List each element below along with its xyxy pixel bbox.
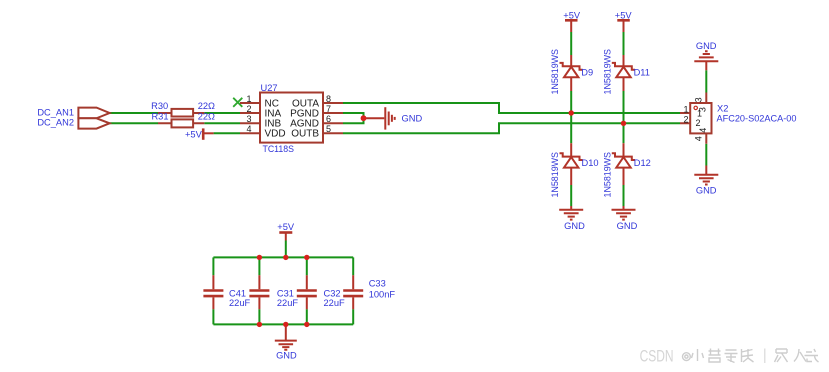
svg-text:4: 4 (246, 124, 251, 134)
svg-text:1N5819WS: 1N5819WS (550, 49, 560, 95)
svg-text:1: 1 (683, 105, 688, 115)
svg-text:C33: C33 (369, 279, 386, 289)
svg-text:OUTB: OUTB (291, 129, 319, 140)
svg-text:+5V: +5V (615, 10, 633, 20)
svg-text:1N5819WS: 1N5819WS (603, 49, 613, 95)
svg-text:GND: GND (564, 221, 585, 231)
svg-text:D12: D12 (634, 158, 651, 168)
svg-text:5: 5 (326, 124, 331, 134)
svg-text:3: 3 (246, 114, 251, 124)
svg-text:1N5819WS: 1N5819WS (603, 152, 613, 198)
svg-text:C31: C31 (277, 288, 294, 298)
svg-text:3: 3 (698, 107, 708, 112)
svg-text:2: 2 (696, 118, 701, 128)
svg-text:4: 4 (694, 136, 704, 141)
svg-text:22uF: 22uF (229, 298, 251, 308)
svg-text:D10: D10 (582, 158, 599, 168)
svg-text:100nF: 100nF (369, 290, 396, 300)
svg-text:+5V: +5V (185, 130, 203, 140)
svg-text:1: 1 (246, 94, 251, 104)
svg-text:D11: D11 (634, 68, 650, 78)
svg-text:X2: X2 (717, 104, 728, 114)
svg-text:DC_AN1: DC_AN1 (37, 107, 74, 117)
svg-text:U27: U27 (261, 83, 278, 93)
svg-text:D9: D9 (581, 68, 593, 78)
svg-text:GND: GND (402, 113, 423, 123)
svg-text:GND: GND (696, 41, 717, 51)
svg-text:VDD: VDD (265, 129, 286, 140)
svg-text:R30: R30 (151, 101, 168, 111)
svg-text:2: 2 (246, 104, 251, 114)
svg-text:4: 4 (698, 128, 708, 133)
svg-text:AFC20-S02ACA-00: AFC20-S02ACA-00 (717, 114, 797, 124)
svg-text:22uF: 22uF (324, 298, 346, 308)
svg-text:GND: GND (696, 186, 717, 196)
svg-text:C41: C41 (229, 288, 246, 298)
svg-text:6: 6 (326, 114, 331, 124)
svg-text:+5V: +5V (277, 222, 295, 232)
svg-text:C32: C32 (324, 288, 341, 298)
svg-text:2: 2 (683, 115, 688, 125)
svg-text:22Ω: 22Ω (198, 101, 215, 111)
svg-text:+5V: +5V (563, 10, 581, 20)
svg-text:CSDN: CSDN (640, 347, 674, 366)
svg-text:22Ω: 22Ω (198, 112, 215, 122)
svg-text:7: 7 (326, 104, 331, 114)
svg-text:22uF: 22uF (277, 298, 299, 308)
svg-text:DC_AN2: DC_AN2 (37, 118, 74, 128)
svg-text:TC118S: TC118S (263, 144, 295, 154)
svg-text:GND: GND (276, 350, 297, 360)
svg-text:8: 8 (326, 94, 331, 104)
svg-text:3: 3 (694, 97, 704, 102)
svg-text:R31: R31 (151, 112, 168, 122)
svg-text:GND: GND (617, 221, 638, 231)
svg-text:1N5819WS: 1N5819WS (550, 152, 560, 198)
